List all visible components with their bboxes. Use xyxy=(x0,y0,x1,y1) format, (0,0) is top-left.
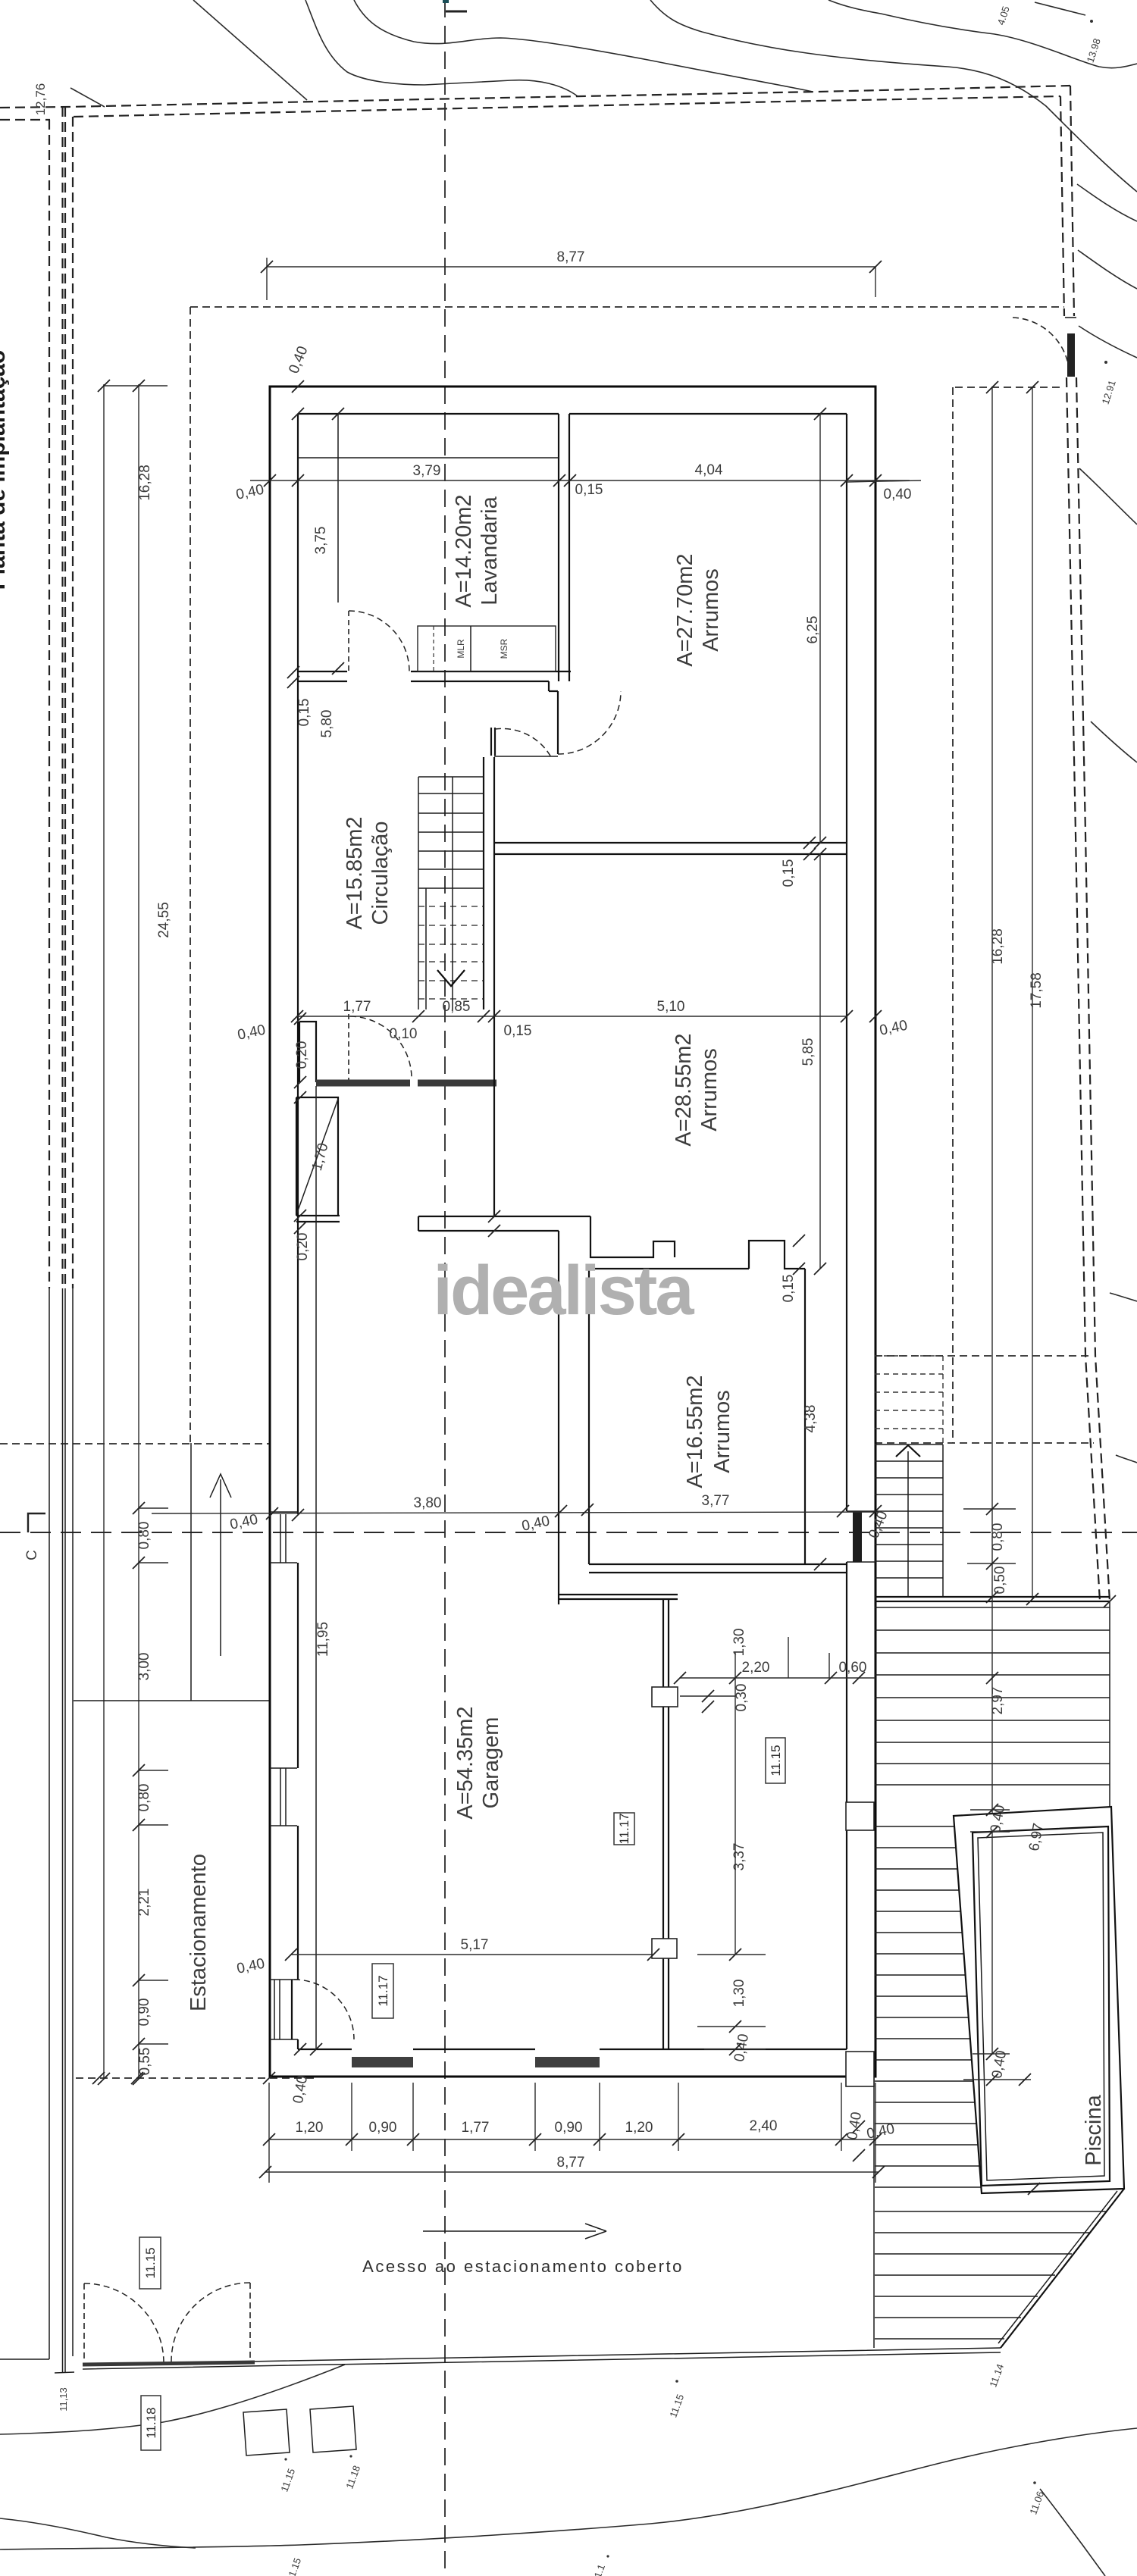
svg-text:0,15: 0,15 xyxy=(781,859,797,887)
svg-text:C: C xyxy=(24,1550,40,1560)
svg-text:11,13: 11,13 xyxy=(58,2387,69,2412)
svg-text:3,77: 3,77 xyxy=(702,1493,730,1509)
svg-text:A=15.85m2: A=15.85m2 xyxy=(343,816,367,929)
svg-text:Garagem: Garagem xyxy=(479,1717,503,1809)
svg-text:1,20: 1,20 xyxy=(296,2120,324,2136)
svg-text:A=27.70m2: A=27.70m2 xyxy=(673,553,697,666)
svg-text:17,58: 17,58 xyxy=(1029,972,1045,1009)
svg-text:Piscina: Piscina xyxy=(1082,2094,1106,2165)
svg-text:0,15: 0,15 xyxy=(504,1023,532,1039)
svg-text:0,80: 0,80 xyxy=(990,1523,1006,1551)
svg-text:0,60: 0,60 xyxy=(839,1660,867,1676)
svg-text:11.17: 11.17 xyxy=(617,1813,631,1844)
svg-text:A=14.20m2: A=14.20m2 xyxy=(452,494,476,607)
svg-text:1,20: 1,20 xyxy=(625,2120,653,2136)
svg-text:Arrumos: Arrumos xyxy=(697,1048,722,1131)
svg-text:2,20: 2,20 xyxy=(742,1660,770,1676)
svg-text:0,90: 0,90 xyxy=(555,2120,583,2136)
svg-text:0,80: 0,80 xyxy=(136,1784,152,1812)
svg-text:Circulação: Circulação xyxy=(368,822,393,925)
svg-text:11.15: 11.15 xyxy=(769,1745,783,1776)
svg-text:4,38: 4,38 xyxy=(803,1405,819,1433)
svg-text:0,40: 0,40 xyxy=(884,487,912,502)
svg-text:1,30: 1,30 xyxy=(731,1980,747,2008)
svg-text:16,28: 16,28 xyxy=(137,465,153,501)
svg-text:5,10: 5,10 xyxy=(657,999,685,1015)
svg-text:0,20: 0,20 xyxy=(294,1041,310,1069)
svg-text:3,75: 3,75 xyxy=(313,527,329,555)
svg-text:Lavandaria: Lavandaria xyxy=(478,496,502,605)
svg-text:MSR: MSR xyxy=(499,638,509,659)
svg-text:idealista: idealista xyxy=(433,1252,694,1329)
svg-text:0,10: 0,10 xyxy=(390,1026,418,1042)
svg-text:A=16.55m2: A=16.55m2 xyxy=(683,1375,707,1488)
svg-text:3,80: 3,80 xyxy=(414,1495,442,1511)
svg-text:5,17: 5,17 xyxy=(461,1937,489,1953)
svg-text:8,77: 8,77 xyxy=(557,2155,585,2171)
svg-text:0,15: 0,15 xyxy=(781,1275,797,1303)
svg-text:A=54.35m2: A=54.35m2 xyxy=(453,1706,478,1819)
svg-text:0,80: 0,80 xyxy=(136,1522,152,1550)
svg-text:0,55: 0,55 xyxy=(137,2048,153,2076)
svg-text:11.17: 11.17 xyxy=(376,1975,390,2006)
svg-text:Arrumos: Arrumos xyxy=(699,568,723,652)
svg-text:0,85: 0,85 xyxy=(443,999,471,1015)
svg-text:11.18: 11.18 xyxy=(144,2407,158,2438)
svg-text:0,90: 0,90 xyxy=(136,1999,152,2027)
svg-text:0,50: 0,50 xyxy=(992,1567,1008,1595)
svg-text:1,30: 1,30 xyxy=(731,1629,747,1657)
svg-text:2,21: 2,21 xyxy=(136,1889,152,1917)
svg-text:11.15: 11.15 xyxy=(143,2247,158,2278)
svg-text:4,04: 4,04 xyxy=(695,462,723,478)
svg-text:0,90: 0,90 xyxy=(369,2120,397,2136)
svg-text:3,37: 3,37 xyxy=(731,1843,747,1871)
svg-text:2,97: 2,97 xyxy=(990,1687,1006,1715)
svg-text:11,95: 11,95 xyxy=(315,1622,331,1657)
svg-text:0,20: 0,20 xyxy=(295,1233,311,1261)
svg-text:3,00: 3,00 xyxy=(136,1653,152,1681)
svg-text:8,77: 8,77 xyxy=(557,249,585,265)
svg-text:Acesso ao estacionamento cober: Acesso ao estacionamento coberto xyxy=(362,2257,684,2276)
svg-text:1,77: 1,77 xyxy=(462,2120,490,2136)
svg-text:0,30: 0,30 xyxy=(734,1684,750,1712)
svg-text:24,55: 24,55 xyxy=(156,902,172,938)
svg-text:1,77: 1,77 xyxy=(343,999,371,1015)
svg-text:Arrumos: Arrumos xyxy=(710,1390,735,1473)
svg-text:5,85: 5,85 xyxy=(800,1038,816,1066)
svg-text:5,80: 5,80 xyxy=(319,710,335,738)
svg-text:Planta de implantação: Planta de implantação xyxy=(0,350,10,590)
svg-text:6,25: 6,25 xyxy=(805,616,821,644)
svg-text:2,40: 2,40 xyxy=(750,2118,778,2134)
svg-text:12,76: 12,76 xyxy=(33,83,48,116)
svg-text:0,15: 0,15 xyxy=(296,699,312,727)
svg-text:MLR: MLR xyxy=(456,639,466,659)
svg-text:Estacionamento: Estacionamento xyxy=(186,1854,211,2011)
svg-text:3,79: 3,79 xyxy=(413,463,441,479)
svg-text:A=28.55m2: A=28.55m2 xyxy=(672,1033,696,1146)
svg-text:0,15: 0,15 xyxy=(575,482,603,498)
svg-text:16,28: 16,28 xyxy=(990,928,1006,965)
